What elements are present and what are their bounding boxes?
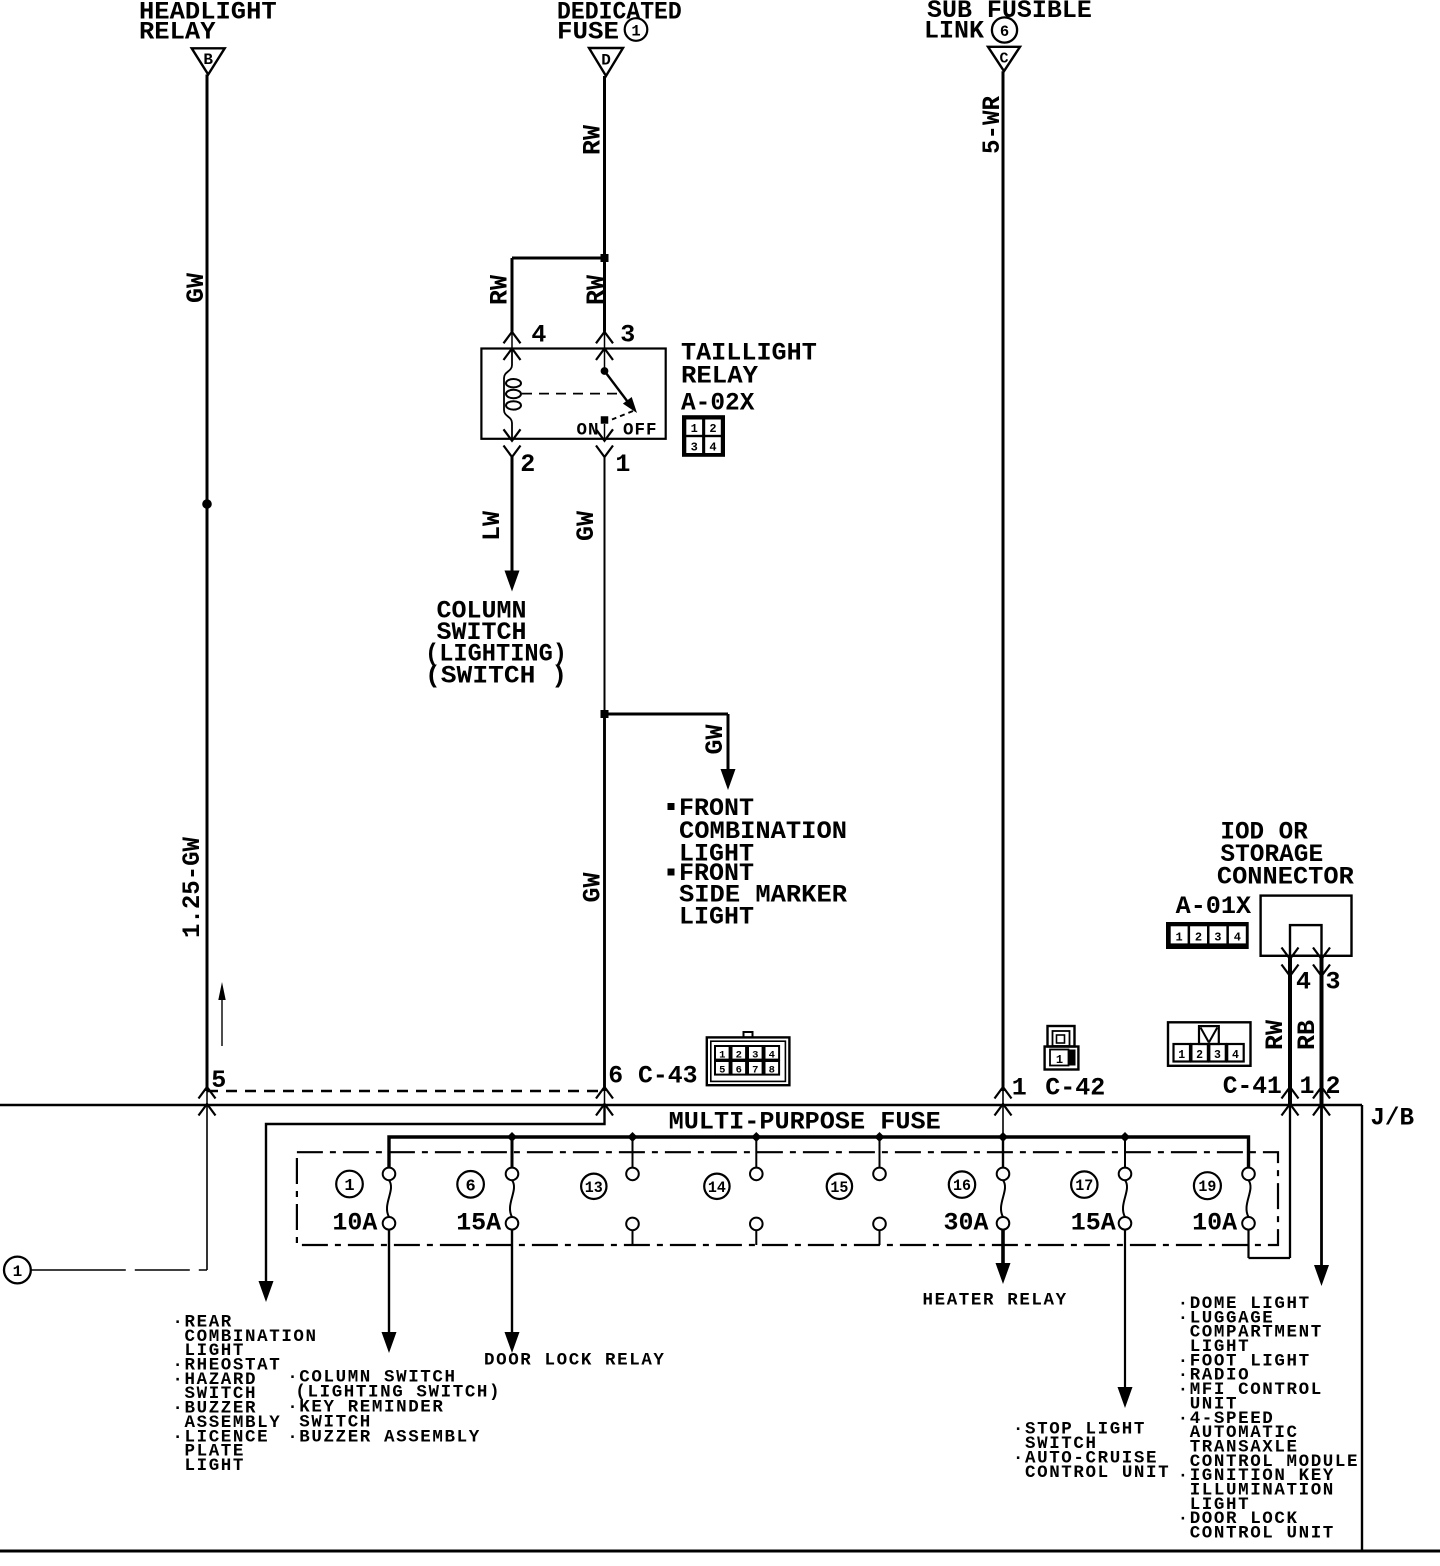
svg-text:4: 4 xyxy=(531,321,546,350)
svg-text:2: 2 xyxy=(1195,931,1202,945)
svg-text:7: 7 xyxy=(752,1065,758,1077)
svg-text:1: 1 xyxy=(691,422,698,436)
svg-text:CONNECTOR: CONNECTOR xyxy=(1217,863,1354,892)
svg-text:10A: 10A xyxy=(332,1208,377,1237)
svg-text:3: 3 xyxy=(620,321,635,350)
svg-text:1: 1 xyxy=(1178,1049,1185,1062)
svg-text:4: 4 xyxy=(769,1050,775,1062)
svg-text:14: 14 xyxy=(708,1179,726,1197)
svg-text:1: 1 xyxy=(719,1050,725,1062)
svg-text:D: D xyxy=(601,52,611,70)
svg-text:13: 13 xyxy=(585,1179,603,1197)
svg-text:A-01X: A-01X xyxy=(1176,892,1252,921)
svg-text:1: 1 xyxy=(13,1263,23,1281)
svg-text:LINK: LINK xyxy=(924,17,984,46)
svg-text:15: 15 xyxy=(830,1179,848,1197)
svg-text:C-41: C-41 xyxy=(1223,1072,1282,1101)
svg-text:C: C xyxy=(999,51,1008,68)
svg-text:RELAY: RELAY xyxy=(139,18,216,47)
svg-text:6: 6 xyxy=(465,1177,475,1196)
svg-text:B: B xyxy=(203,51,213,69)
svg-text:2: 2 xyxy=(1196,1049,1203,1062)
svg-text:RW: RW xyxy=(1261,1020,1290,1050)
svg-text:LIGHT: LIGHT xyxy=(185,1456,246,1476)
svg-text:HEATER RELAY: HEATER RELAY xyxy=(923,1291,1068,1311)
svg-text:RW: RW xyxy=(486,275,515,305)
svg-text:16: 16 xyxy=(953,1177,971,1195)
svg-text:GW: GW xyxy=(572,511,601,541)
svg-text:OFF: OFF xyxy=(623,421,658,441)
svg-text:RB: RB xyxy=(1293,1020,1322,1050)
svg-text:C-42: C-42 xyxy=(1045,1074,1105,1103)
svg-text:·BUZZER ASSEMBLY: ·BUZZER ASSEMBLY xyxy=(287,1428,481,1448)
svg-text:1: 1 xyxy=(344,1177,354,1196)
svg-text:19: 19 xyxy=(1198,1178,1216,1196)
svg-text:3: 3 xyxy=(1214,931,1221,945)
svg-text:6: 6 xyxy=(1000,23,1009,41)
svg-text:2: 2 xyxy=(1326,1072,1341,1101)
svg-text:5: 5 xyxy=(719,1065,725,1077)
svg-text:4: 4 xyxy=(1234,931,1241,945)
svg-text:17: 17 xyxy=(1075,1177,1093,1195)
svg-text:8: 8 xyxy=(769,1065,775,1077)
svg-text:MULTI-PURPOSE FUSE: MULTI-PURPOSE FUSE xyxy=(669,1108,941,1137)
svg-text:1.25-GW: 1.25-GW xyxy=(178,837,207,938)
svg-text:5: 5 xyxy=(211,1066,226,1095)
svg-text:RW: RW xyxy=(582,275,611,305)
svg-text:3: 3 xyxy=(691,440,698,454)
svg-text:(SWITCH ): (SWITCH ) xyxy=(425,662,567,691)
svg-text:1: 1 xyxy=(1300,1072,1315,1101)
svg-text:2: 2 xyxy=(736,1050,742,1062)
svg-text:5-WR: 5-WR xyxy=(978,96,1007,154)
svg-text:3: 3 xyxy=(1326,968,1341,997)
svg-text:6: 6 xyxy=(736,1065,742,1077)
svg-text:CONTROL UNIT: CONTROL UNIT xyxy=(1190,1524,1335,1544)
svg-text:J/B: J/B xyxy=(1370,1104,1414,1133)
svg-text:10A: 10A xyxy=(1192,1208,1237,1237)
svg-text:1: 1 xyxy=(1056,1053,1063,1067)
svg-text:CONTROL UNIT: CONTROL UNIT xyxy=(1025,1463,1170,1483)
svg-text:3: 3 xyxy=(752,1050,758,1062)
svg-text:4: 4 xyxy=(1296,968,1311,997)
svg-text:4: 4 xyxy=(709,440,716,454)
svg-text:FUSE: FUSE xyxy=(557,18,619,47)
svg-text:30A: 30A xyxy=(944,1208,989,1237)
svg-text:1: 1 xyxy=(631,22,640,40)
svg-text:6 C-43: 6 C-43 xyxy=(608,1062,697,1091)
svg-text:A-02X: A-02X xyxy=(681,389,754,418)
svg-text:4: 4 xyxy=(1232,1049,1239,1062)
svg-text:1: 1 xyxy=(615,450,630,479)
svg-text:RELAY: RELAY xyxy=(681,362,758,391)
svg-text:LW: LW xyxy=(478,511,507,541)
svg-text:1: 1 xyxy=(1175,931,1182,945)
svg-text:DOOR LOCK RELAY: DOOR LOCK RELAY xyxy=(484,1351,666,1371)
svg-text:15A: 15A xyxy=(456,1208,501,1237)
svg-text:3: 3 xyxy=(1214,1049,1221,1062)
svg-text:15A: 15A xyxy=(1071,1208,1116,1237)
svg-text:RW: RW xyxy=(579,125,608,155)
svg-text:GW: GW xyxy=(701,724,730,754)
svg-text:2: 2 xyxy=(709,422,716,436)
svg-text:2: 2 xyxy=(520,450,535,479)
svg-text:LIGHT: LIGHT xyxy=(679,903,754,932)
svg-text:1: 1 xyxy=(1012,1074,1027,1103)
svg-text:ON: ON xyxy=(577,421,600,441)
svg-text:GW: GW xyxy=(182,273,211,303)
